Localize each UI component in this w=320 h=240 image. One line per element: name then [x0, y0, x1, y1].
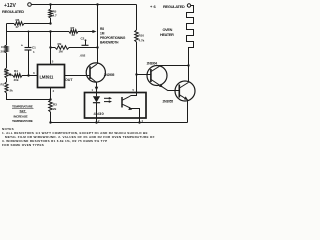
wire x136 R10 to base node — [136, 42, 138, 75]
pin 5 top of U1 — [51, 48, 54, 65]
node junction rail-Q1 — [96, 3, 98, 5]
svg-text:R7: R7 — [71, 26, 75, 30]
svg-text:BANDWIDTH: BANDWIDTH — [100, 41, 119, 45]
LED inside opto — [93, 92, 100, 118]
svg-text:+ 6: + 6 — [150, 4, 156, 9]
svg-text:R9: R9 — [58, 42, 62, 46]
wire Q2 collector up to y65 — [160, 65, 189, 68]
node +6V terminal label — [150, 4, 185, 9]
svg-text:.002: .002 — [80, 54, 86, 58]
svg-text:R10: R10 — [139, 34, 145, 38]
wiper arrow — [8, 73, 13, 76]
svg-text:2N2905: 2N2905 — [104, 73, 115, 77]
resistor R3 2k — [49, 100, 57, 112]
wire x6.5 lower — [6, 78, 8, 82]
op-amp U1 LM3911 — [38, 65, 65, 88]
node junction x50-y31 — [49, 30, 51, 32]
svg-text:C2: C2 — [81, 37, 85, 41]
node junction pin4-templine — [49, 98, 51, 100]
wire LED cathode to rail — [96, 118, 98, 123]
svg-text:TEMPERATURE: TEMPERATURE — [12, 105, 33, 109]
label R8 proportioning bandwidth — [100, 27, 126, 45]
potentiometer element lower — [5, 68, 8, 78]
terminal +12V — [28, 3, 32, 7]
resistor R1 2k — [1, 82, 14, 93]
resistor R7 2k proportioning — [69, 26, 78, 37]
wire x6.5 mid — [6, 53, 8, 68]
node junction x97-y47.5 — [96, 46, 98, 48]
svg-text:OVEN: OVEN — [163, 28, 173, 32]
capacitor C2 .002 — [80, 37, 89, 58]
label temperature set — [12, 105, 34, 123]
node junction x50-y23 — [49, 22, 51, 24]
optocoupler U2 4N30 — [85, 93, 147, 119]
phototransistor inside opto — [122, 93, 140, 119]
wire ground rail — [51, 122, 188, 124]
resistor R5 4.7 — [49, 5, 57, 19]
resistor R4 — [13, 69, 22, 82]
wire Q1 emitter up x97 — [97, 5, 99, 65]
node +12V terminal label — [2, 3, 24, 14]
svg-text:R4: R4 — [14, 69, 18, 73]
svg-text:PROPORTIONING: PROPORTIONING — [100, 36, 126, 40]
notes text — [2, 127, 155, 147]
node junction x50-y47.5 — [49, 46, 51, 48]
node junction rail left end — [49, 121, 51, 123]
svg-text:2N3904: 2N3904 — [147, 61, 158, 65]
svg-text:HEATER: HEATER — [160, 33, 174, 37]
node junction LED cathode rail — [95, 121, 97, 123]
svg-text:4.7k: 4.7k — [139, 39, 145, 43]
wire y23 rail left — [7, 23, 15, 25]
transistor Q2 2N3904 — [147, 61, 168, 90]
node junction x188-y65 — [187, 64, 189, 66]
svg-text:SET: SET — [20, 109, 26, 113]
svg-text:R2: R2 — [4, 68, 8, 72]
node junction opto emitter rail — [138, 121, 140, 123]
transistor Q3 2N3055 — [163, 81, 196, 104]
wire x50 y31 to y47.5 — [50, 32, 52, 48]
transistor Q1 2N2905 — [86, 63, 114, 83]
node junction x28-y75.5 — [27, 74, 29, 76]
svg-text:4N30: 4N30 — [94, 111, 105, 116]
wire Q3 collector up to heater — [188, 66, 190, 83]
potentiometer R2 20k temperature set — [1, 45, 9, 54]
pin OUT right of U1 — [65, 76, 91, 82]
wire Q3 emitter down to rail — [187, 100, 189, 123]
terminal +6V — [187, 4, 190, 7]
svg-text:FOR SOME OVEN TYPES: FOR SOME OVEN TYPES — [2, 143, 44, 147]
pin 4 bottom of U1 — [51, 88, 55, 101]
wire x136 rail corner down — [136, 5, 138, 31]
light arrows — [104, 97, 112, 103]
svg-text:2k: 2k — [10, 89, 14, 93]
wire R4 to U1 — [22, 75, 37, 77]
svg-text:REGULATED: REGULATED — [163, 4, 185, 9]
node junction rail-R5 — [49, 3, 51, 5]
svg-text:2k: 2k — [72, 33, 76, 37]
wire opto emitter to rail — [139, 118, 141, 123]
wire y47.5 left seg — [51, 47, 56, 49]
wire Q2 base — [137, 74, 151, 76]
svg-text:2N3055: 2N3055 — [163, 100, 174, 104]
node junction x136-y74 — [135, 73, 137, 75]
svg-text:1M: 1M — [59, 50, 64, 54]
svg-text:47: 47 — [16, 25, 20, 29]
wire top +12V rail — [32, 4, 137, 6]
wire y31 arrow to x97 — [78, 30, 97, 33]
pin digits opto — [92, 88, 144, 123]
svg-text:LM3911: LM3911 — [40, 75, 55, 80]
svg-text:R6: R6 — [16, 18, 20, 22]
svg-text:40k: 40k — [14, 78, 19, 82]
wire y47.5 right seg — [69, 47, 98, 49]
resistor R9 1M feedback — [55, 42, 69, 54]
svg-text:4.7: 4.7 — [53, 14, 58, 18]
wire y23 R6 to x50 — [24, 23, 51, 25]
wire x50 R5 to y23 — [50, 18, 52, 24]
svg-text:TEMPERATURE: TEMPERATURE — [12, 119, 33, 123]
svg-text:CW: CW — [1, 45, 6, 49]
capacitor C1 — [21, 32, 36, 76]
wire left column x6.5 — [6, 24, 8, 46]
svg-text:R1: R1 — [1, 83, 5, 87]
svg-text:1M: 1M — [100, 31, 105, 35]
resistor R10 4.7k — [135, 30, 145, 43]
wire left column bottom corner to pin4 line — [7, 93, 51, 100]
svg-text:+: + — [21, 44, 23, 48]
svg-text:C1: C1 — [32, 46, 36, 50]
node junction x28-y31 — [28, 31, 30, 33]
svg-text:OUT: OUT — [65, 78, 73, 82]
wire Q1 collector to opto LED with arrow — [95, 82, 98, 92]
svg-text:2k: 2k — [53, 107, 57, 111]
wire x136 down to opto collector — [136, 75, 138, 93]
svg-text:REGULATED: REGULATED — [2, 9, 24, 14]
svg-text:R3: R3 — [53, 103, 57, 107]
oven heater element — [160, 6, 194, 66]
resistor R6 47 — [14, 18, 24, 29]
wire R3 to ground rail — [50, 112, 52, 123]
svg-text:20k: 20k — [1, 50, 6, 54]
wire Q2 emitter to Q3 base — [168, 90, 179, 92]
wire y31 rail — [7, 31, 70, 33]
